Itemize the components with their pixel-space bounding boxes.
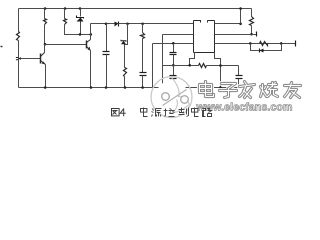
node dot C3 bottom: [172, 64, 175, 67]
wire C5 upper: [173, 66, 175, 76]
wire pin1 up to rail: [240, 9, 242, 24]
wire zener bottom: [80, 22, 82, 35]
wire diode loop: [251, 44, 282, 51]
wire R3 bottom corner to node: [65, 25, 91, 35]
caption 图4: [112, 109, 120, 116]
op-amp U1 IC body: [194, 21, 215, 53]
wire Q1 collector up: [44, 45, 46, 53]
resistor R6 (horizontal): [199, 64, 207, 68]
node dot at corner node to Q2 collector: [90, 33, 93, 36]
wire C5 lower: [173, 79, 175, 88]
wire Q2 emitter down: [90, 51, 92, 88]
node dot C2 bottom: [141, 86, 144, 89]
node dot rail at pin1 riser: [239, 7, 242, 10]
wire feedback bottom right: [207, 65, 239, 67]
wire U1 left pin3: [153, 43, 194, 45]
zener diode ZD2: [121, 40, 126, 45]
电: [141, 108, 148, 117]
input arrow terminal at left rail: [16, 57, 21, 60]
diode D1: [115, 22, 119, 27]
char dian: [200, 82, 214, 97]
node dot pin1 right: [239, 23, 242, 26]
watermark flame logo circle: [151, 77, 192, 118]
node dot RC branch top: [141, 23, 144, 26]
wire left rail lower: [18, 41, 20, 88]
char you: [285, 83, 301, 98]
left edge tick mark: [1, 46, 3, 48]
node dot bottom-left pin: [188, 64, 191, 67]
node dot R4 bottom: [124, 86, 127, 89]
transistor Q1: [41, 53, 46, 65]
terminal bar pin3 output: [295, 41, 297, 47]
char fa: [240, 82, 255, 98]
制: [179, 108, 189, 117]
char you: [285, 83, 301, 98]
node dot zener branch 2 top: [126, 23, 129, 26]
wire C1 upper: [106, 24, 108, 52]
resistor R8 (horizontal): [260, 42, 268, 46]
wire C2 bottom: [142, 76, 144, 88]
wire C3 upper: [173, 44, 175, 53]
resistor R7: [250, 17, 254, 26]
char dian: [200, 82, 214, 97]
wire Q1 base: [21, 58, 41, 60]
wire middle horizontal to IC pin1: [91, 23, 115, 25]
transistor Q2: [87, 40, 91, 51]
wire bottom rail: [19, 87, 239, 89]
node dot bottom-right pin at feedback wire: [219, 64, 222, 67]
wire C4 branch: [238, 66, 240, 76]
源: [152, 109, 162, 117]
wire R2 bottom to collector node: [44, 25, 46, 45]
wire corner node up: [90, 24, 92, 35]
wire diode to IC: [119, 23, 194, 25]
node dot Q2 emitter bottom: [90, 86, 93, 89]
wire Q1 emitter down: [45, 65, 47, 88]
wire C3 lower: [173, 55, 175, 66]
node dot top of R3 branch: [64, 7, 67, 10]
char shao: [261, 83, 278, 97]
node dot bottom-right pin at bottom rail: [219, 86, 222, 89]
路: [203, 109, 212, 117]
node dot output R8 right: [280, 42, 283, 45]
terminal bar pin2 output: [256, 32, 258, 37]
node dot C1 bottom: [105, 86, 108, 89]
wire U1 right pin3: [215, 43, 296, 45]
node dot junction R2/Q1 collector/base wire: [44, 43, 47, 46]
resistor R4: [124, 68, 127, 77]
node dot top of zener branch: [79, 7, 82, 10]
watermark text 电子发烧友: [200, 82, 301, 98]
capacitor C1: [103, 52, 110, 55]
wire U1 right pin1: [215, 23, 241, 25]
wire Q2 base horizontal: [45, 44, 87, 46]
resistor R3: [64, 19, 67, 25]
wire C1 lower: [106, 55, 108, 88]
resistor R3 branch wire upper: [64, 9, 66, 19]
diode D2 (points left): [260, 49, 264, 53]
capacitor C5: [170, 76, 177, 79]
resistor R1 (left rail): [17, 32, 20, 41]
node dot output R8 left: [249, 42, 252, 45]
char shao: [261, 83, 278, 97]
caption 电源控制电路: [141, 108, 212, 117]
wire feedback bottom: [163, 65, 199, 67]
wire rail right corner down: [251, 9, 253, 17]
wire pin3 branch vertical: [152, 44, 154, 88]
wire zener branch upper: [80, 9, 82, 17]
wire zener2 branch upper: [125, 24, 128, 68]
wire top rail: [19, 8, 252, 10]
char zi: [220, 84, 237, 98]
wire U1 bottom-left pin: [190, 53, 195, 66]
node dot Q1 emitter bottom: [44, 86, 47, 89]
node dot zener to R3 wire: [79, 33, 82, 36]
resistor R2 branch wire upper: [44, 9, 46, 19]
wire U1 bottom-right pin: [215, 53, 221, 88]
node dot R7 to pin2 wire: [250, 33, 253, 36]
wire U1 right pin2: [215, 34, 257, 36]
node dot capacitor C1 top: [105, 23, 108, 26]
wire C4 lower: [238, 79, 240, 88]
wire R5 to C2: [142, 39, 144, 73]
node dot top of R2 branch: [44, 7, 47, 10]
wire Q2 collector up to node: [90, 35, 92, 40]
wire U1 left pin2: [163, 34, 194, 36]
char fa: [240, 82, 255, 98]
capacitor C3: [170, 53, 177, 55]
zener diode ZD1: [77, 16, 84, 22]
wire pin2 branch vertical: [162, 35, 164, 88]
wire R7 bottom: [251, 26, 253, 35]
resistor R5: [141, 33, 145, 39]
wire left rail upper: [18, 9, 20, 32]
node dot C3 top: [172, 42, 175, 45]
wire RC branch upper: [142, 24, 144, 33]
capacitor C2: [140, 73, 147, 76]
resistor R2: [44, 19, 47, 25]
wire R4 bottom: [124, 77, 126, 88]
char zi: [220, 84, 237, 98]
capacitor C4: [236, 76, 243, 79]
电: [192, 108, 199, 117]
控: [164, 109, 175, 117]
